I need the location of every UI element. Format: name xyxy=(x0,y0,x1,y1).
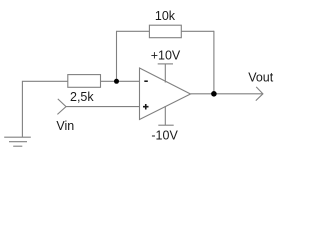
wire Vin to non-inverting input xyxy=(66,106,140,108)
ground bar 1 xyxy=(4,136,31,138)
+10V rail bar xyxy=(158,63,173,65)
svg-text:Vin: Vin xyxy=(56,119,74,133)
wire feedback top right xyxy=(181,30,214,32)
op-amp U1 triangle xyxy=(140,68,191,120)
ground bar 3 xyxy=(13,145,22,147)
wire ground to resistor R2 xyxy=(22,81,67,137)
svg-text:2,5k: 2,5k xyxy=(70,90,94,104)
pin minus inverting input mark xyxy=(144,80,148,82)
-10V rail bar xyxy=(158,124,173,126)
svg-text:-10V: -10V xyxy=(151,129,178,143)
wire -10V supply stub xyxy=(164,106,166,125)
ground bar 2 xyxy=(9,141,27,143)
wire +10V supply stub xyxy=(164,64,166,83)
resistor R2 2,5k body xyxy=(68,75,101,88)
svg-text:+10V: +10V xyxy=(151,49,181,63)
node A junction feedback/inverting input xyxy=(114,79,119,84)
wire feedback top left xyxy=(116,30,149,32)
wire resistor R2 to inverting input xyxy=(101,80,140,82)
wire feedback left vertical xyxy=(116,31,118,81)
resistor R1 10k body xyxy=(149,25,181,38)
svg-text:Vout: Vout xyxy=(248,70,274,84)
input port arrow Vin xyxy=(57,99,66,115)
output port arrow Vout xyxy=(256,87,263,101)
wire output to Vout xyxy=(191,93,263,95)
node B junction output/feedback xyxy=(211,91,217,97)
wire feedback right vertical xyxy=(213,31,215,94)
pin plus non-inverting input mark xyxy=(143,104,149,110)
svg-text:10k: 10k xyxy=(155,9,176,23)
